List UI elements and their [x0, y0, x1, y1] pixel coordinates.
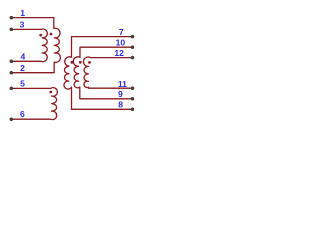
polarity dot winding W1: [71, 61, 74, 64]
winding W1 with pin 7 and pin 8 wires: [64, 37, 132, 110]
pin 10 end dot: [131, 45, 135, 49]
pin 8 end dot: [131, 108, 135, 112]
pin 2 end dot: [10, 71, 14, 75]
svg-text:4: 4: [21, 51, 26, 61]
polarity dot winding W2: [79, 61, 82, 64]
svg-text:3: 3: [20, 20, 25, 30]
winding B with pin 1 and pin 2 wires: [11, 18, 60, 73]
svg-text:11: 11: [118, 79, 127, 89]
winding A with pin 3 and pin 4 wires: [11, 29, 47, 62]
winding W3 with pin 12 and pin 11 wires: [83, 57, 132, 88]
pin 1 end dot: [10, 16, 14, 20]
polarity dot winding B: [50, 33, 53, 36]
pin 3 end dot: [10, 28, 14, 32]
polarity dot winding C: [49, 91, 52, 94]
svg-text:5: 5: [20, 79, 25, 89]
pin 4 end dot: [10, 60, 14, 64]
svg-text:7: 7: [119, 27, 124, 37]
winding C with pin 5 and pin 6 wires: [11, 88, 57, 120]
pin 11 end dot: [131, 86, 135, 90]
svg-text:1: 1: [20, 8, 25, 18]
svg-text:6: 6: [20, 109, 25, 119]
pin 12 end dot: [131, 56, 135, 60]
svg-text:8: 8: [118, 100, 123, 110]
winding W2 with pin 10 and pin 9 wires: [73, 47, 132, 99]
pin 5 end dot: [10, 87, 14, 91]
polarity dot winding A: [39, 34, 42, 37]
pin 7 end dot: [131, 35, 135, 39]
svg-text:9: 9: [118, 89, 123, 99]
svg-text:10: 10: [116, 38, 126, 48]
pin 6 end dot: [10, 117, 14, 121]
polarity dot winding W3: [88, 61, 91, 64]
svg-text:2: 2: [20, 63, 25, 73]
pin 9 end dot: [131, 97, 135, 101]
svg-text:12: 12: [114, 48, 124, 58]
